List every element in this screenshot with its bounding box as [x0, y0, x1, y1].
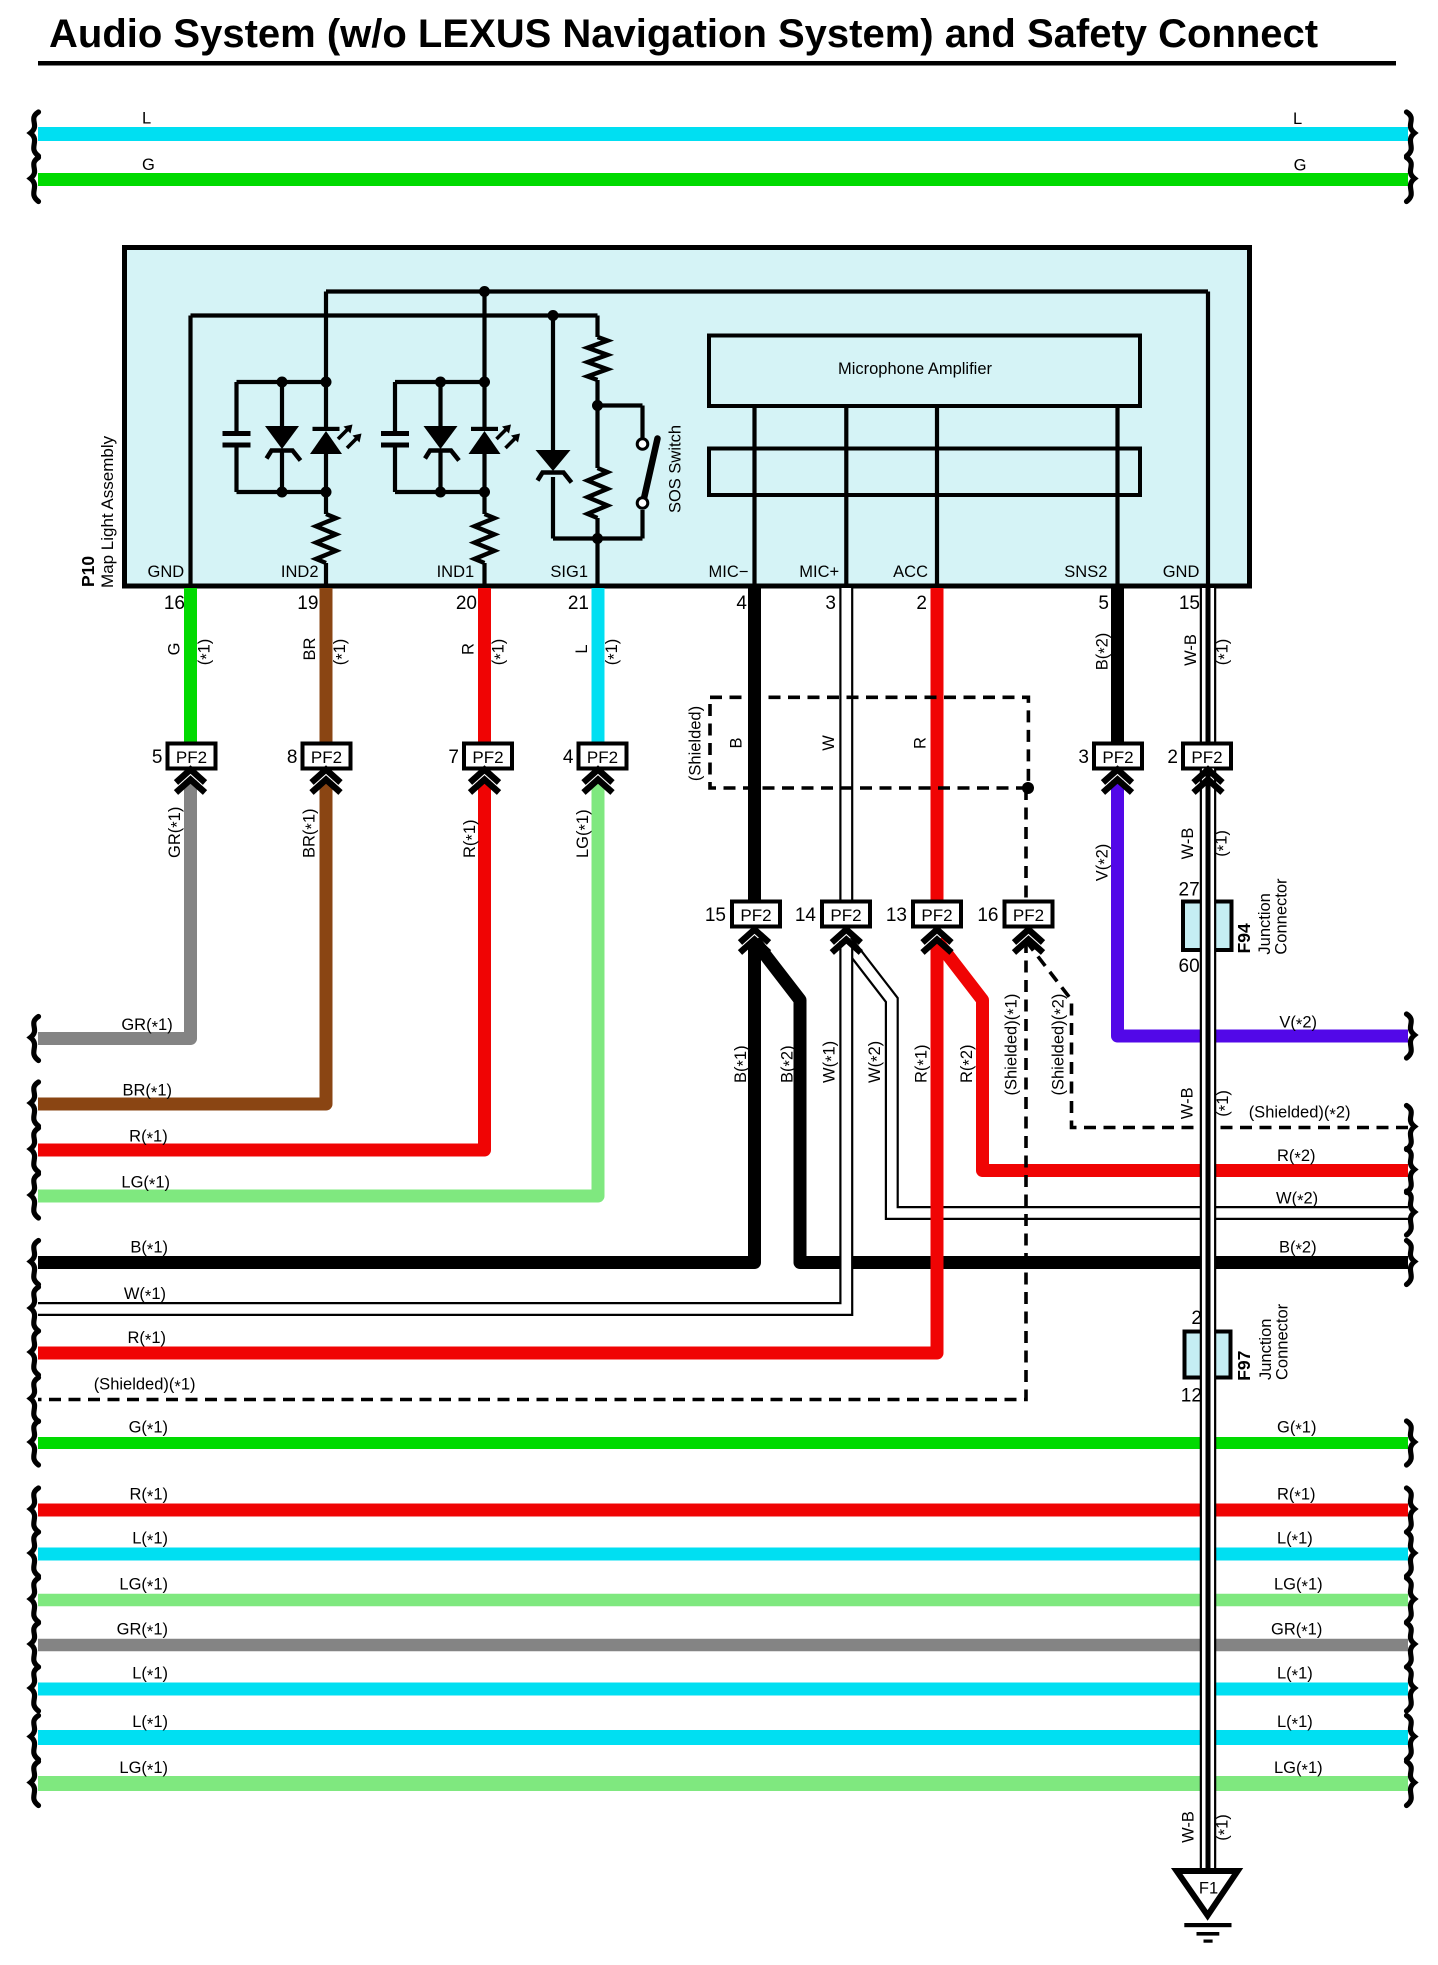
svg-text:19: 19 — [297, 593, 318, 614]
svg-text:Audio System (w/o LEXUS Naviga: Audio System (w/o LEXUS Navigation Syste… — [49, 12, 1318, 56]
svg-text:(Shielded)(*1): (Shielded)(*1) — [94, 1376, 196, 1397]
svg-text:MIC−: MIC− — [709, 563, 749, 581]
svg-text:2: 2 — [916, 593, 927, 614]
svg-text:R(*1): R(*1) — [1277, 1486, 1316, 1507]
svg-text:IND2: IND2 — [281, 563, 319, 581]
svg-text:GR(*1): GR(*1) — [121, 1016, 172, 1037]
svg-text:L(*1): L(*1) — [132, 1530, 168, 1551]
svg-text:Map Light Assembly: Map Light Assembly — [98, 435, 117, 588]
svg-text:PF2: PF2 — [740, 906, 771, 925]
svg-text:LG(*1): LG(*1) — [119, 1759, 168, 1780]
svg-text:R(*1): R(*1) — [129, 1128, 168, 1149]
svg-text:GR(*1): GR(*1) — [1271, 1621, 1322, 1642]
svg-text:2: 2 — [1167, 747, 1178, 768]
svg-text:(Shielded)(*2): (Shielded)(*2) — [1249, 1104, 1351, 1125]
svg-text:PF2: PF2 — [921, 906, 952, 925]
svg-text:20: 20 — [456, 593, 477, 614]
svg-text:GND: GND — [148, 563, 185, 581]
svg-text:BR: BR — [301, 637, 319, 660]
svg-text:PF2: PF2 — [1191, 748, 1222, 767]
svg-text:16: 16 — [164, 593, 185, 614]
svg-text:(*1): (*1) — [331, 639, 352, 666]
svg-text:W(*2): W(*2) — [866, 1041, 887, 1083]
svg-text:ACC: ACC — [893, 563, 928, 581]
svg-text:LG(*1): LG(*1) — [1274, 1759, 1323, 1780]
svg-text:SOS Switch: SOS Switch — [667, 425, 685, 513]
svg-text:B(*2): B(*2) — [1093, 633, 1114, 671]
svg-text:PF2: PF2 — [311, 748, 342, 767]
svg-text:(Shielded): (Shielded) — [686, 706, 704, 781]
svg-text:5: 5 — [1098, 593, 1109, 614]
svg-text:Microphone Amplifier: Microphone Amplifier — [838, 360, 993, 378]
svg-text:LG(*1): LG(*1) — [121, 1174, 170, 1195]
svg-text:27: 27 — [1179, 880, 1200, 901]
svg-text:GR(*1): GR(*1) — [166, 807, 187, 858]
svg-text:(Shielded)(*1): (Shielded)(*1) — [1002, 994, 1023, 1096]
svg-text:R(*2): R(*2) — [958, 1044, 979, 1083]
svg-text:W(*1): W(*1) — [124, 1285, 166, 1306]
svg-text:2: 2 — [1191, 1308, 1202, 1329]
svg-text:BR(*1): BR(*1) — [122, 1082, 172, 1103]
svg-text:W-B: W-B — [1179, 1087, 1197, 1119]
svg-text:G: G — [165, 643, 183, 656]
svg-text:R(*1): R(*1) — [127, 1329, 166, 1350]
svg-text:MIC+: MIC+ — [799, 563, 839, 581]
svg-text:G: G — [1294, 157, 1307, 175]
svg-text:14: 14 — [795, 905, 817, 926]
svg-text:L: L — [142, 110, 151, 128]
svg-text:8: 8 — [287, 747, 298, 768]
svg-text:(*1): (*1) — [603, 639, 624, 666]
svg-text:G: G — [142, 156, 155, 174]
svg-text:R(*1): R(*1) — [129, 1486, 168, 1507]
svg-text:W: W — [820, 735, 838, 751]
svg-text:PF2: PF2 — [830, 906, 861, 925]
svg-text:B(*1): B(*1) — [732, 1045, 753, 1083]
svg-text:L(*1): L(*1) — [132, 1713, 168, 1734]
svg-text:R(*1): R(*1) — [912, 1044, 933, 1083]
svg-text:(Shielded)(*2): (Shielded)(*2) — [1049, 994, 1070, 1096]
svg-text:LG(*1): LG(*1) — [119, 1576, 168, 1597]
svg-text:Connector: Connector — [1273, 1303, 1291, 1380]
svg-text:(*1): (*1) — [489, 639, 510, 666]
svg-text:SNS2: SNS2 — [1064, 563, 1107, 581]
svg-text:L(*1): L(*1) — [1277, 1530, 1313, 1551]
svg-text:P10: P10 — [78, 556, 98, 587]
svg-text:F94: F94 — [1234, 923, 1254, 953]
svg-text:PF2: PF2 — [176, 748, 207, 767]
svg-text:(*1): (*1) — [195, 639, 216, 666]
svg-text:R(*2): R(*2) — [1277, 1147, 1316, 1168]
svg-text:(*1): (*1) — [1213, 830, 1234, 857]
svg-text:3: 3 — [1078, 747, 1089, 768]
svg-text:GND: GND — [1163, 563, 1200, 581]
svg-text:SIG1: SIG1 — [550, 563, 588, 581]
svg-text:21: 21 — [568, 593, 589, 614]
svg-text:12: 12 — [1181, 1385, 1202, 1406]
svg-text:PF2: PF2 — [472, 748, 503, 767]
svg-text:4: 4 — [736, 593, 747, 614]
svg-text:W-B: W-B — [1182, 634, 1200, 666]
svg-text:GR(*1): GR(*1) — [117, 1621, 168, 1642]
svg-text:Junction: Junction — [1256, 893, 1274, 954]
svg-text:W(*2): W(*2) — [1276, 1190, 1318, 1211]
svg-text:(*1): (*1) — [1214, 1090, 1235, 1117]
svg-text:G(*1): G(*1) — [129, 1419, 168, 1440]
svg-text:LG(*1): LG(*1) — [1274, 1576, 1323, 1597]
svg-text:PF2: PF2 — [1102, 748, 1133, 767]
svg-text:13: 13 — [886, 905, 907, 926]
svg-text:F97: F97 — [1234, 1351, 1254, 1381]
svg-text:PF2: PF2 — [1013, 906, 1044, 925]
svg-text:B(*2): B(*2) — [1279, 1239, 1317, 1260]
svg-text:IND1: IND1 — [437, 563, 475, 581]
svg-text:W-B: W-B — [1179, 828, 1197, 860]
svg-text:R(*1): R(*1) — [461, 819, 482, 858]
svg-text:15: 15 — [705, 905, 726, 926]
svg-text:B: B — [727, 737, 745, 748]
svg-text:60: 60 — [1179, 956, 1200, 977]
svg-text:W-B: W-B — [1179, 1811, 1197, 1843]
svg-text:V(*2): V(*2) — [1093, 844, 1114, 882]
svg-text:Connector: Connector — [1273, 878, 1291, 955]
svg-text:F1: F1 — [1199, 1880, 1218, 1898]
svg-text:4: 4 — [563, 747, 574, 768]
svg-text:(*1): (*1) — [1214, 1814, 1235, 1841]
svg-text:V(*2): V(*2) — [1279, 1014, 1317, 1035]
svg-text:7: 7 — [448, 747, 459, 768]
svg-text:5: 5 — [152, 747, 163, 768]
svg-text:L: L — [573, 644, 591, 653]
svg-text:BR(*1): BR(*1) — [300, 808, 321, 858]
svg-text:(*1): (*1) — [1213, 639, 1234, 666]
svg-text:B(*2): B(*2) — [778, 1045, 799, 1083]
svg-text:R: R — [459, 643, 477, 655]
svg-text:PF2: PF2 — [587, 748, 618, 767]
svg-text:W(*1): W(*1) — [820, 1041, 841, 1083]
svg-text:G(*1): G(*1) — [1277, 1419, 1316, 1440]
svg-text:L(*1): L(*1) — [132, 1665, 168, 1686]
svg-text:L: L — [1293, 110, 1302, 128]
svg-text:L(*1): L(*1) — [1277, 1665, 1313, 1686]
svg-text:15: 15 — [1179, 593, 1200, 614]
svg-text:Junction: Junction — [1257, 1319, 1275, 1380]
svg-text:16: 16 — [977, 905, 998, 926]
svg-text:LG(*1): LG(*1) — [574, 809, 595, 858]
svg-text:L(*1): L(*1) — [1277, 1713, 1313, 1734]
svg-text:3: 3 — [825, 593, 836, 614]
svg-text:R: R — [911, 737, 929, 749]
svg-text:B(*1): B(*1) — [130, 1239, 168, 1260]
